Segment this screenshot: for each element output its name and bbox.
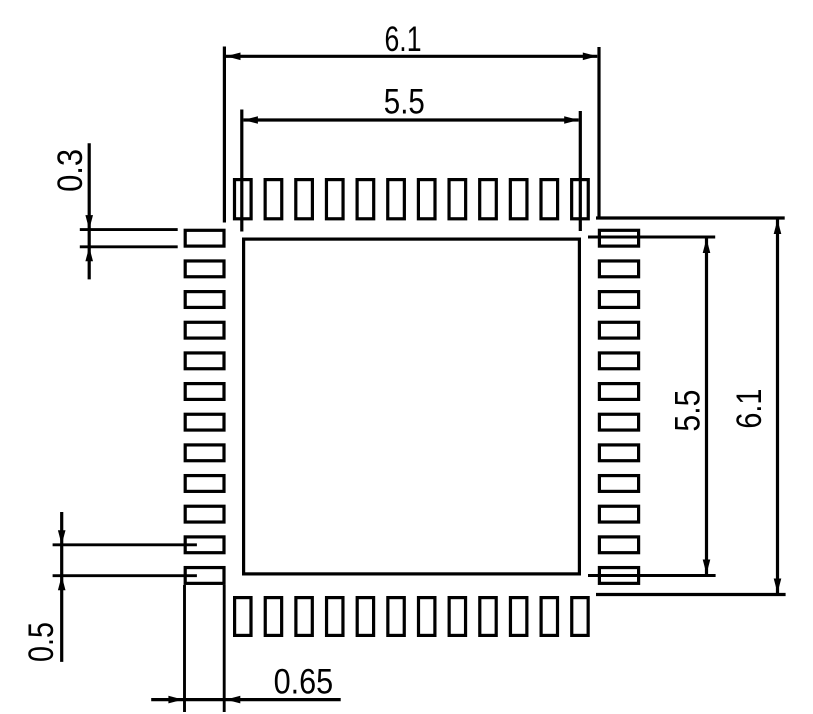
dim 5.5 top: dimension line [243, 118, 578, 121]
pad top row #6 [388, 180, 405, 219]
pad right column #5 [599, 353, 638, 369]
dim 6.1 right: dimension line [776, 220, 779, 594]
dim label 6.1 (right, rotated) [730, 389, 769, 429]
pad top row #7 [418, 180, 435, 219]
pad top row #10 [510, 180, 527, 219]
dim 5.5 right: top extension line (through pad) [588, 236, 715, 239]
dim 0.3: lower extension line [80, 245, 178, 248]
dim 0.65: left extension line [183, 585, 186, 712]
pad bottom row #5 [357, 598, 373, 636]
dim 6.1 right: bottom arrowhead [774, 579, 782, 594]
dim 5.5 right: bottom arrowhead [703, 560, 711, 575]
dim 5.5 right: bottom extension line (through pad) [588, 574, 716, 577]
dim label 0.3 (rotated) [51, 149, 90, 192]
pad bottom row #1 [235, 598, 251, 636]
pad left column #6 [185, 384, 224, 400]
svg-text:0.3: 0.3 [51, 149, 90, 192]
pad left column #11 [185, 537, 224, 553]
dim 5.5 right: dimension line [705, 239, 708, 575]
pad left column #8 [185, 445, 224, 461]
pad right column #1 [599, 230, 638, 246]
pad top row #11 [541, 180, 558, 219]
dim 0.3: dimension line [88, 143, 91, 279]
pad right column #4 [599, 322, 638, 338]
dim label 5.5 (right, rotated) [668, 390, 707, 432]
svg-text:5.5: 5.5 [384, 82, 425, 121]
pad bottom row #10 [510, 598, 526, 636]
pad bottom row #2 [265, 598, 281, 636]
dim 0.3: upper arrowhead (points down) [85, 215, 93, 230]
pad left column #7 [185, 414, 224, 430]
dim 6.1 top: left extension line [223, 47, 226, 223]
dim 6.1 right: bottom extension line [596, 593, 786, 596]
svg-text:0.65: 0.65 [274, 663, 334, 702]
pad bottom row #3 [296, 598, 312, 636]
dim 0.65: right arrowhead (points left) [226, 696, 241, 704]
dim 0.65: dimension line [151, 698, 341, 701]
pad top row #2 [265, 180, 282, 219]
IC body outline (5.5mm square) [244, 239, 580, 574]
pad top row #3 [296, 180, 313, 219]
dim 5.5 top: left extension line [240, 110, 243, 232]
pad bottom row #6 [388, 598, 404, 636]
pad top row #4 [326, 180, 343, 219]
dim 0.5: dimension line [60, 512, 63, 662]
dim 5.5 top: left arrowhead [243, 116, 258, 124]
pad left column #1 [185, 230, 224, 246]
dim 6.1 right: top extension line [596, 216, 785, 219]
pad left column #3 [185, 292, 224, 308]
pad left column #4 [185, 322, 224, 338]
pad right column #2 [599, 261, 638, 277]
svg-text:6.1: 6.1 [385, 20, 422, 59]
pad right column #7 [599, 414, 638, 430]
pad right column #12 [599, 568, 638, 584]
pad right column #6 [599, 384, 638, 400]
svg-text:0.5: 0.5 [22, 622, 61, 662]
pad top row #12 [572, 180, 589, 219]
pad left column #12 [185, 568, 224, 584]
pad bottom row #12 [572, 598, 588, 636]
pad left column #5 [185, 353, 224, 369]
pad bottom row #8 [449, 598, 465, 636]
pad top row #5 [357, 180, 374, 219]
pad right column #3 [599, 292, 638, 308]
pad top row #9 [480, 180, 497, 219]
dim 0.5: upper extension line (through pad 11) [53, 543, 197, 546]
dim 0.5: lower extension line (through pad 12) [53, 574, 197, 577]
pad left column #10 [185, 506, 224, 522]
dim 6.1 right: top arrowhead [774, 220, 782, 235]
dim 0.3: upper extension line [80, 228, 178, 231]
dim 5.5 top: right arrowhead [564, 116, 579, 124]
dim 0.3: lower arrowhead (points up) [85, 247, 93, 261]
dim 5.5 right: top arrowhead [703, 239, 711, 254]
pad bottom row #7 [419, 598, 435, 636]
pad right column #9 [599, 476, 638, 492]
pad bottom row #11 [541, 598, 557, 636]
pad bottom row #4 [327, 598, 343, 636]
dim 5.5 top: right extension line [579, 111, 582, 231]
dim 6.1 top: dimension line [226, 55, 597, 58]
pad right column #8 [599, 445, 638, 461]
dim 0.65: right extension line [223, 585, 226, 712]
svg-text:5.5: 5.5 [668, 390, 707, 432]
dim 0.5: upper arrowhead (points down) [58, 530, 66, 545]
pad bottom row #9 [480, 598, 496, 636]
svg-text:6.1: 6.1 [730, 389, 769, 429]
pad right column #10 [599, 506, 638, 522]
dim 0.5: lower arrowhead (points up) [58, 576, 66, 591]
pad top row #1 [235, 180, 252, 219]
dim 0.65: left arrowhead (points right) [168, 696, 183, 704]
dim 6.1 top: left arrowhead [226, 53, 241, 61]
dim 6.1 top: right extension line [597, 47, 600, 219]
pad right column #11 [599, 537, 638, 553]
dim 6.1 top: right arrowhead [583, 53, 598, 61]
pad left column #2 [185, 261, 224, 277]
pad left column #9 [185, 476, 224, 492]
pad top row #8 [449, 180, 466, 219]
dim label 0.5 (rotated) [22, 622, 61, 662]
